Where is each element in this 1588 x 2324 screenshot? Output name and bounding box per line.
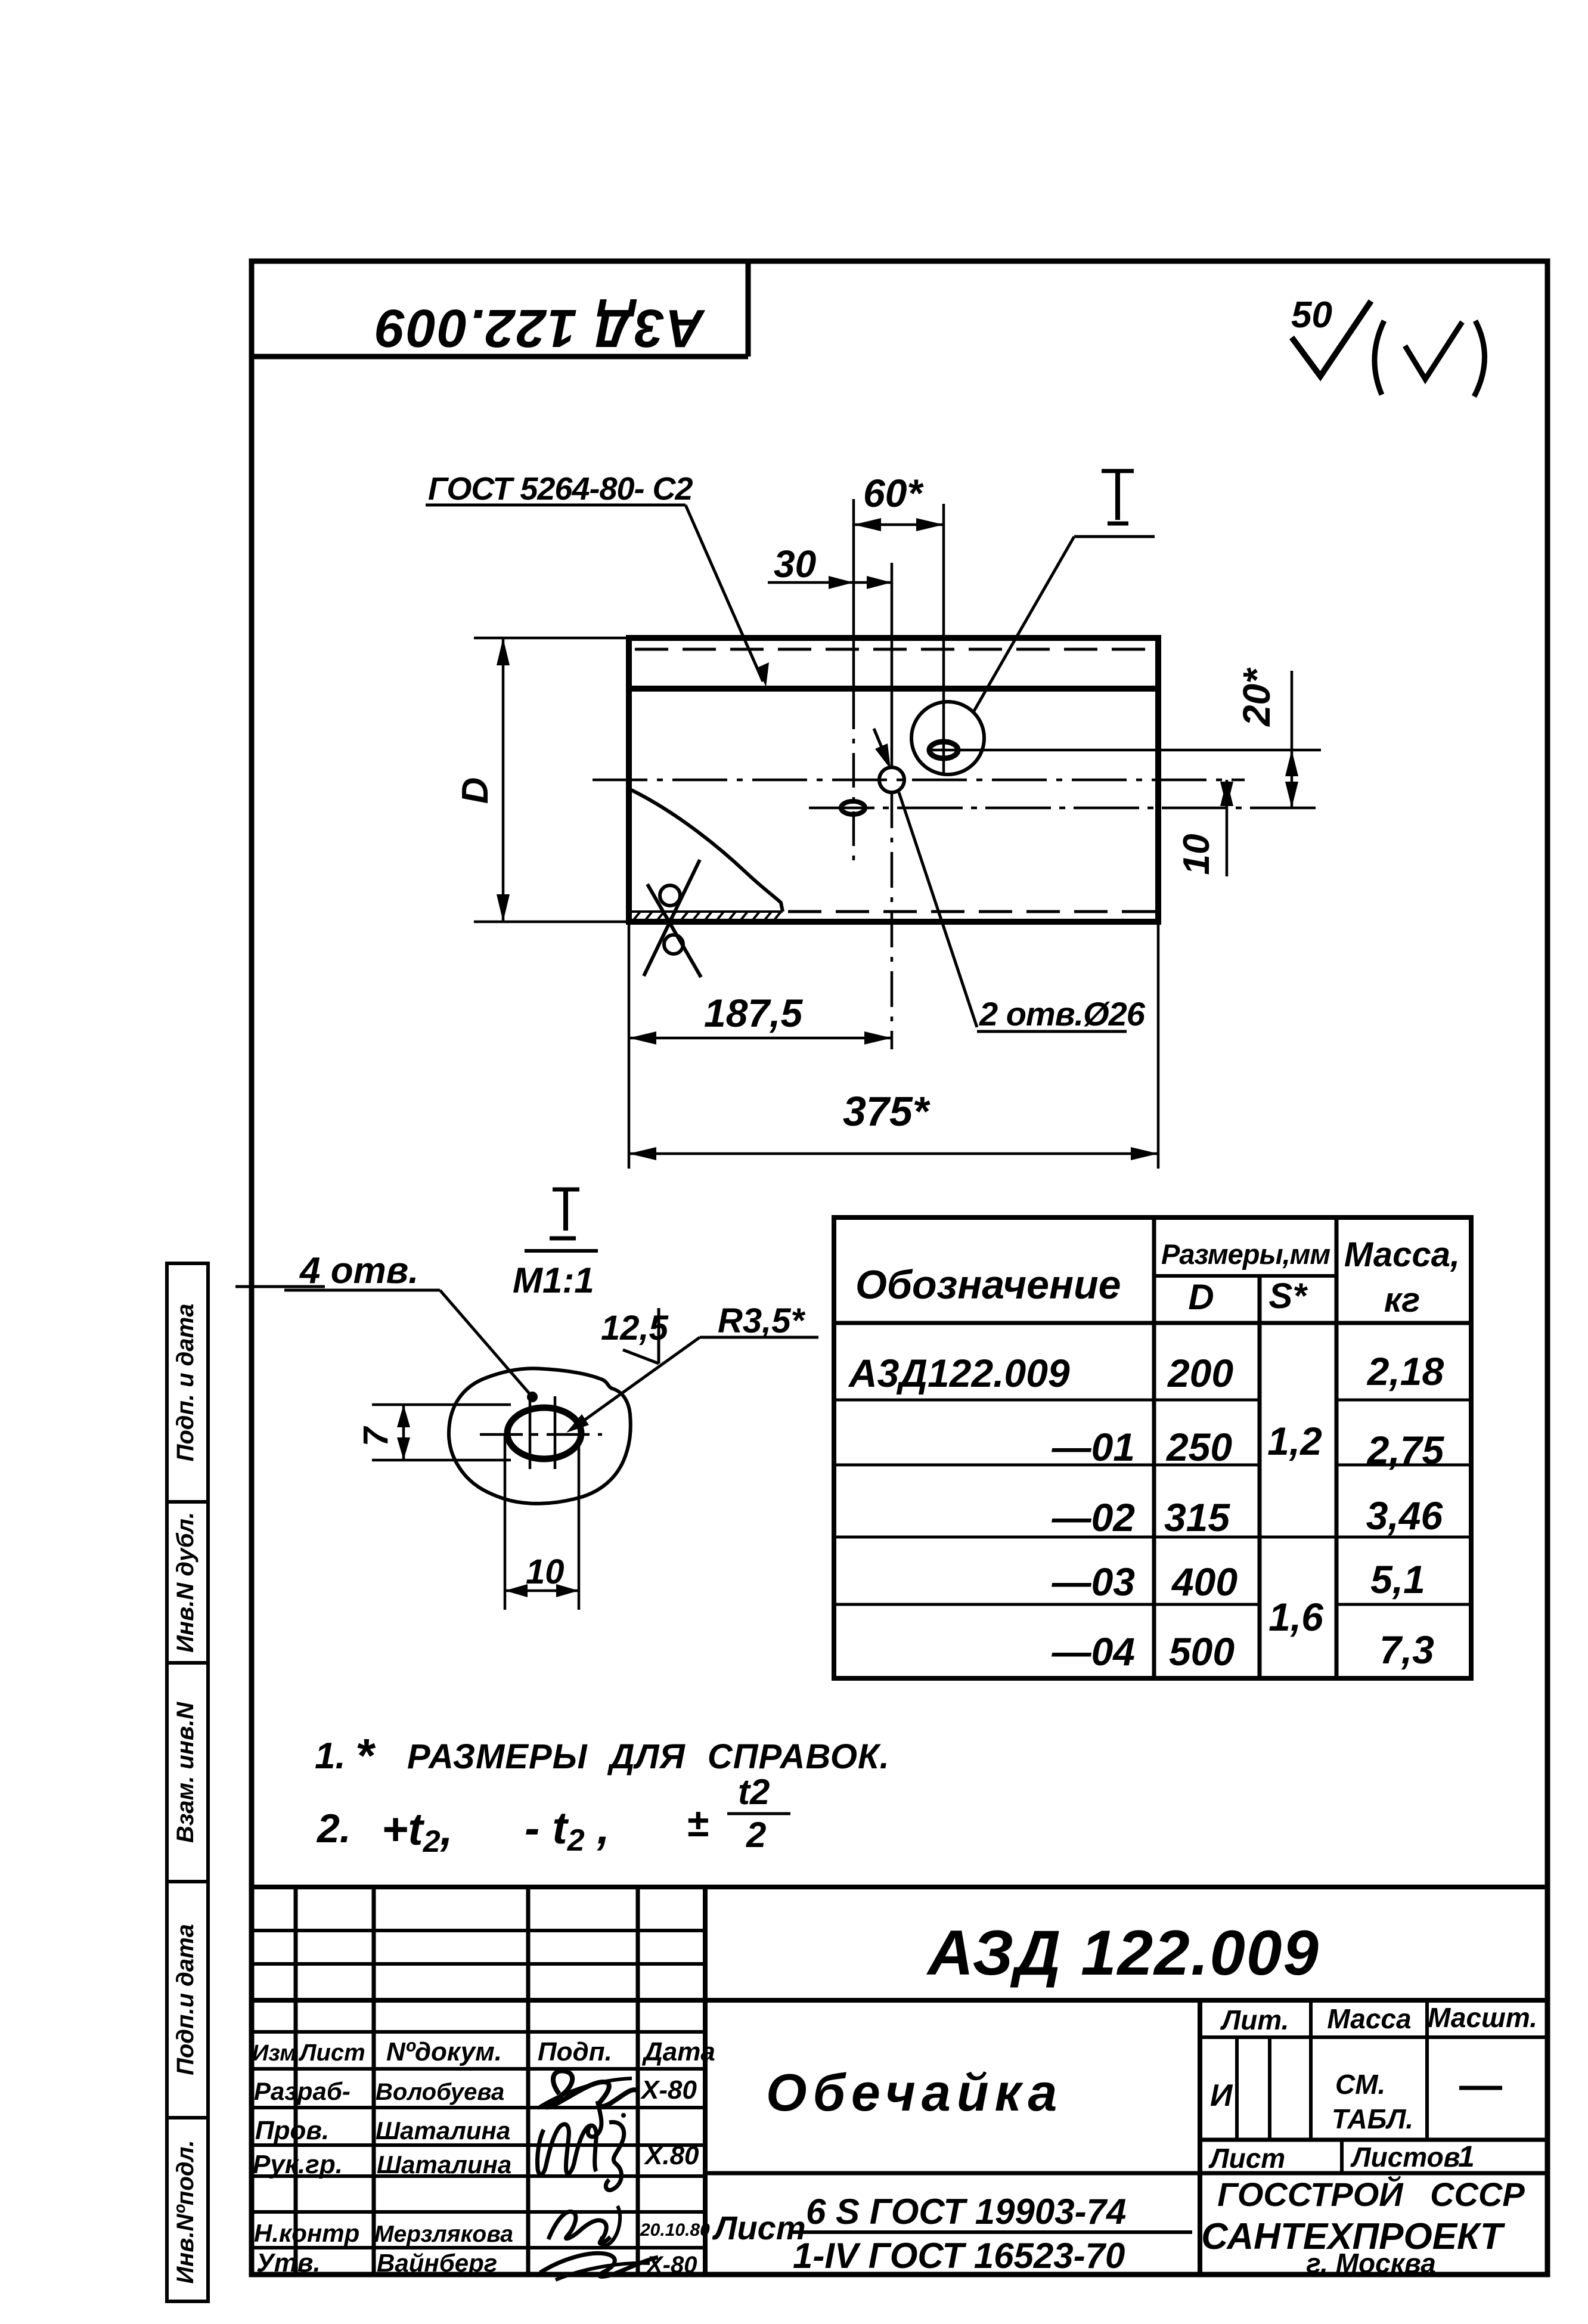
svg-text:Инв.N дубл.: Инв.N дубл. [172, 1512, 199, 1653]
svg-text:2,75: 2,75 [1366, 1428, 1445, 1472]
svg-text:Лист: Лист [298, 2040, 365, 2066]
table column line D/S [1258, 1276, 1262, 1678]
table header split razmery [1154, 1274, 1336, 1278]
left stamp verticals [296, 1887, 638, 2275]
weld X symbol with circles [644, 860, 701, 977]
drawing frame border [252, 261, 1547, 2275]
top-left designation box [252, 262, 748, 357]
svg-text:500: 500 [1169, 1629, 1235, 1674]
svg-text:1-IV ГОСТ 16523-70: 1-IV ГОСТ 16523-70 [793, 2236, 1125, 2276]
svg-text:—03: —03 [1052, 1560, 1135, 1604]
svg-text:2 отв.Ø26: 2 отв.Ø26 [979, 995, 1146, 1033]
signature volobueva [547, 2071, 637, 2107]
svg-text:30: 30 [774, 543, 816, 585]
svg-text:Дата: Дата [641, 2037, 715, 2066]
svg-text:- t2 ,: - t2 , [525, 1803, 610, 1858]
dimension 375* [629, 922, 1158, 1169]
centerline main axis [593, 779, 1245, 782]
svg-text:1,6: 1,6 [1268, 1595, 1324, 1639]
svg-text:ГОССТРОЙ СССР: ГОССТРОЙ СССР [1217, 2176, 1525, 2213]
svg-text:А3Д 122.009: А3Д 122.009 [375, 298, 705, 358]
leader 4 holes [284, 1250, 538, 1402]
title block top line [252, 1885, 1547, 1889]
svg-text:Изм: Изм [252, 2041, 296, 2066]
section label I leader [973, 471, 1155, 713]
table row line 3 [834, 1536, 1471, 1539]
svg-text:400: 400 [1171, 1560, 1237, 1604]
parenthesis right [1474, 321, 1485, 396]
centering tick mark left [235, 1285, 325, 1288]
svg-text:R3,5*: R3,5* [718, 1302, 806, 1340]
svg-text:—02: —02 [1052, 1495, 1136, 1539]
svg-text:1: 1 [1458, 2140, 1475, 2173]
dimension 20* right side [1235, 667, 1298, 808]
svg-text:ТАБЛ.: ТАБЛ. [1332, 2103, 1413, 2134]
dimension D [455, 638, 629, 922]
small check in parentheses [1405, 322, 1462, 379]
svg-text:50: 50 [1291, 295, 1332, 336]
svg-text:Мерзлякова: Мерзлякова [374, 2221, 513, 2247]
svg-text:315: 315 [1164, 1495, 1230, 1539]
list listov row [1200, 2138, 1547, 2142]
hidden dashed line below top edge [635, 648, 1155, 651]
svg-text:D: D [455, 777, 496, 804]
dimension 10 bottom [505, 1434, 579, 1610]
svg-text:Подп.: Подп. [538, 2037, 612, 2066]
svg-text:Масса,: Масса, [1344, 1235, 1460, 1274]
svg-text:Пров.: Пров. [255, 2116, 329, 2145]
name / material divider [705, 2171, 1547, 2176]
svg-text:А3Д122.009: А3Д122.009 [848, 1351, 1070, 1395]
dimension 30 [768, 543, 892, 589]
svg-text:1,2: 1,2 [1267, 1419, 1322, 1463]
svg-text:—01: —01 [1052, 1425, 1135, 1469]
svg-text:D: D [1188, 1277, 1214, 1317]
table row line 2 [834, 1464, 1260, 1467]
lit massa masht header [1200, 2035, 1547, 2039]
roughness 12,5 mark [601, 1308, 669, 1364]
svg-text:Вайнберг: Вайнберг [377, 2249, 497, 2277]
svg-text:20.10.80: 20.10.80 [640, 2220, 710, 2240]
svg-text:200: 200 [1167, 1351, 1233, 1395]
svg-text:S*: S* [1268, 1276, 1308, 1316]
svg-text:Лист: Лист [1208, 2143, 1285, 2174]
svg-text:10: 10 [526, 1553, 565, 1591]
svg-text:6 S ГОСТ 19903-74: 6 S ГОСТ 19903-74 [806, 2192, 1126, 2232]
svg-text:Взам. инв.N: Взам. инв.N [172, 1702, 199, 1843]
dimension 7 [356, 1405, 511, 1460]
margin cell divider 2 [167, 1661, 208, 1665]
lower hole oval [841, 801, 865, 814]
svg-text:187,5: 187,5 [704, 991, 803, 1035]
svg-text:Подп.и дата: Подп.и дата [172, 1924, 199, 2075]
svg-text:кг: кг [1384, 1281, 1420, 1319]
svg-text:t2: t2 [738, 1772, 770, 1812]
svg-text:2.: 2. [316, 1806, 351, 1851]
signature merzlyakova [548, 2211, 610, 2243]
svg-text:3,46: 3,46 [1366, 1493, 1444, 1538]
upper hole oval [929, 742, 958, 758]
svg-text:375*: 375* [843, 1088, 931, 1135]
svg-text:Х-80: Х-80 [646, 2252, 697, 2278]
dimension 60* [854, 471, 944, 531]
vertical axis line at 60 right / upper hole [942, 504, 945, 775]
weld seam line [629, 686, 1158, 692]
margin cell divider 3 [167, 1880, 208, 1883]
svg-text:60*: 60* [863, 471, 924, 515]
svg-text:Шаталина: Шаталина [376, 2117, 510, 2145]
leader 2 holes d26 [874, 729, 1146, 1033]
svg-text:Размеры,мм: Размеры,мм [1161, 1238, 1330, 1270]
svg-text:±: ± [687, 1801, 708, 1845]
svg-text:Лит.: Лит. [1220, 2004, 1289, 2035]
table column line S/mass [1335, 1217, 1339, 1678]
slot hole oval [507, 1408, 581, 1459]
svg-text:Масшт.: Масшт. [1428, 2002, 1537, 2033]
centerline upper hole axis [928, 749, 1321, 752]
table outer border [834, 1217, 1471, 1678]
svg-text:Обечайка: Обечайка [766, 2063, 1063, 2122]
svg-text:5,1: 5,1 [1370, 1557, 1425, 1601]
svg-text:—04: —04 [1052, 1629, 1135, 1674]
leader GOST 5264-80-C2 [426, 471, 769, 687]
svg-text:2: 2 [746, 1815, 766, 1855]
svg-text:7: 7 [356, 1426, 395, 1446]
svg-text:АЗД 122.009: АЗД 122.009 [926, 1917, 1320, 1988]
svg-text:Рук.гр.: Рук.гр. [253, 2150, 343, 2179]
sheet edge curve [631, 790, 783, 912]
detail blob outline [449, 1368, 631, 1504]
svg-text:Обозначение: Обозначение [855, 1262, 1121, 1307]
svg-text:2,18: 2,18 [1366, 1349, 1444, 1393]
svg-text:Разраб-: Разраб- [254, 2077, 351, 2105]
left stamp row lines [252, 1931, 705, 2248]
hidden dashed line above bottom edge (right part) [788, 910, 1155, 913]
svg-text:М1:1: М1:1 [513, 1260, 594, 1300]
svg-text:И: И [1210, 2078, 1233, 2113]
vertical axis line at 60 left [852, 499, 855, 695]
svg-text:Инв.Nºподл.: Инв.Nºподл. [172, 2140, 199, 2283]
svg-text:7,3: 7,3 [1379, 1628, 1434, 1672]
svg-text:Подп. и дата: Подп. и дата [172, 1304, 199, 1462]
name cell divider vertical [1198, 2000, 1202, 2275]
svg-text:Nºдокум.: Nºдокум. [386, 2037, 502, 2066]
hole circle 26 [879, 767, 904, 792]
svg-text:г. Москва: г. Москва [1306, 2248, 1436, 2279]
svg-text:*: * [355, 1729, 376, 1782]
svg-text:Х-80: Х-80 [640, 2075, 697, 2105]
svg-text:10: 10 [1176, 834, 1217, 875]
lit cell subdividers [1235, 2037, 1239, 2140]
svg-text:+t2,: +t2, [382, 1804, 453, 1859]
margin cell divider 1 [167, 1500, 208, 1504]
centerline lower hole axis [809, 807, 1321, 810]
left/right stamp main divider [703, 1887, 708, 2275]
svg-text:250: 250 [1165, 1425, 1232, 1469]
signature vainberg [540, 2253, 658, 2276]
svg-text:СМ.: СМ. [1335, 2069, 1385, 2100]
margin cell divider 4 [167, 2116, 208, 2120]
slot centerlines [480, 1396, 602, 1469]
svg-text:ГОСТ 5264-80- С2: ГОСТ 5264-80- С2 [428, 471, 693, 507]
part outline rectangle [629, 638, 1158, 922]
svg-text:20*: 20* [1235, 667, 1278, 727]
svg-text:Волобуева: Волобуева [376, 2079, 504, 2105]
table row line 4 [834, 1603, 1260, 1606]
svg-text:РАЗМЕРЫ ДЛЯ СПРАВОК.: РАЗМЕРЫ ДЛЯ СПРАВОК. [407, 1737, 890, 1776]
detail title I [513, 1189, 598, 1300]
table row line 1 [834, 1399, 1260, 1402]
roughness mark 50 with check [1291, 295, 1371, 376]
hatched strip bottom-left [632, 911, 783, 921]
svg-text:Х.80: Х.80 [643, 2141, 699, 2170]
svg-text:Утв.: Утв. [256, 2248, 321, 2277]
svg-text:Масса: Масса [1327, 2003, 1411, 2034]
margin strip box [167, 1263, 208, 2301]
table header bottom [834, 1321, 1471, 1325]
svg-text:Шаталина: Шаталина [377, 2151, 511, 2179]
signature shatalina big [537, 2124, 596, 2174]
parenthesis left [1375, 321, 1384, 395]
svg-text:Лист: Лист [712, 2209, 806, 2246]
vertical axis line at 30 dim [891, 563, 894, 768]
masht value dash [1459, 2086, 1502, 2090]
svg-text:1.: 1. [315, 1736, 346, 1777]
leader R3,5* [566, 1302, 818, 1433]
svg-text:Н.контр: Н.контр [254, 2219, 359, 2247]
row line aligned with big cell bottom [252, 1998, 1547, 2003]
dimension 10 right side [1176, 780, 1233, 876]
detail callout circle I [911, 702, 984, 774]
dimension 187,5 [629, 922, 892, 1169]
svg-text:Листов: Листов [1350, 2142, 1460, 2173]
table column line designation/D [1152, 1217, 1156, 1678]
